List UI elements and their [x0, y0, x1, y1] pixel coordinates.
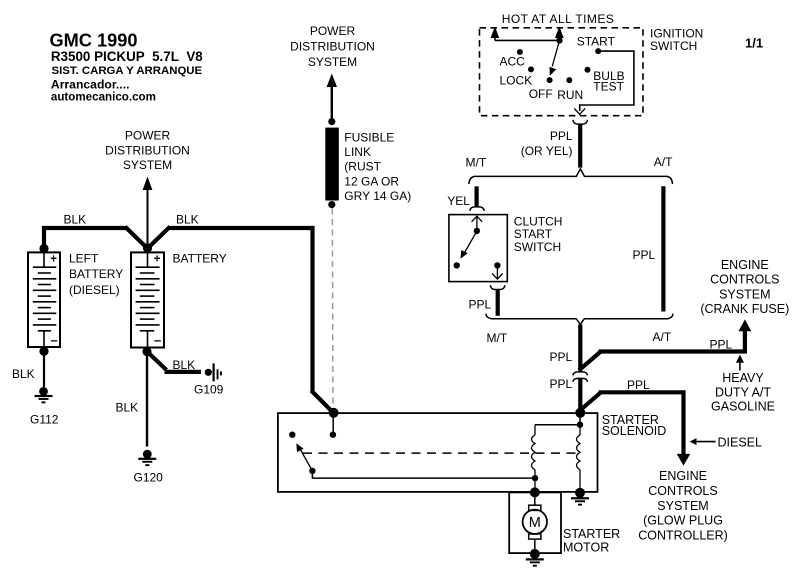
svg-text:+: +: [154, 254, 161, 266]
svg-text:ENGINE: ENGINE: [659, 469, 707, 483]
connector (cup) below clutch switch: [490, 285, 505, 289]
arrow hot feed left: [491, 26, 500, 40]
svg-text:POWER: POWER: [310, 24, 356, 38]
svg-text:R3500 PICKUP 5.7L V8: R3500 PICKUP 5.7L V8: [51, 49, 203, 64]
svg-text:DISTRIBUTION: DISTRIBUTION: [290, 40, 375, 54]
wire branch to glow plug controller (thick): [579, 390, 686, 455]
node ACC contact: [517, 49, 523, 55]
wire YEL to clutch switch (thick): [475, 186, 479, 206]
svg-text:M/T: M/T: [487, 331, 508, 345]
node solenoid arm pivot: [309, 468, 315, 474]
svg-text:SOLENOID: SOLENOID: [602, 424, 667, 438]
svg-text:LINK: LINK: [344, 145, 371, 159]
svg-text:Arrancador....: Arrancador....: [51, 78, 130, 92]
svg-text:GMC 1990: GMC 1990: [50, 31, 138, 51]
svg-text:START: START: [514, 227, 553, 241]
motor brush upper: [529, 505, 541, 510]
coil hold-in winding: [532, 425, 536, 492]
svg-text:(RUST: (RUST: [344, 160, 381, 174]
svg-text:automecanico.com: automecanico.com: [51, 91, 156, 104]
svg-text:POWER: POWER: [125, 129, 171, 143]
arrow hot feed center: [555, 26, 564, 40]
node motor feed: [530, 487, 540, 497]
ignition switch wiper arm: [550, 40, 560, 75]
wire PPL main (connector to solenoid, thick): [578, 379, 582, 413]
node LOCK contact: [528, 66, 534, 72]
node clutch switch common: [474, 228, 480, 234]
svg-text:BLK: BLK: [173, 358, 196, 372]
svg-text:G109: G109: [194, 382, 224, 396]
node RUN contact: [566, 77, 572, 83]
svg-text:TEST: TEST: [593, 80, 624, 94]
svg-text:(OR YEL): (OR YEL): [521, 144, 573, 158]
node motor ground: [530, 549, 540, 559]
fusible link F1: [325, 128, 339, 201]
svg-text:SWITCH: SWITCH: [514, 240, 561, 254]
svg-text:BLK: BLK: [176, 213, 199, 227]
label POWER DISTRIBUTION SYSTEM (left): [105, 129, 190, 173]
svg-text:HEAVY: HEAVY: [722, 371, 764, 385]
svg-text:–: –: [154, 333, 161, 348]
motor M1 (starter motor): [523, 510, 547, 534]
label ENGINE CONTROLS SYSTEM (CRANK FUSE): [700, 258, 789, 316]
svg-text:PPL: PPL: [633, 248, 656, 262]
ground G109 (side facing): [205, 363, 222, 381]
node BULB TEST contact: [585, 67, 591, 73]
wire BLK right battery to G109 (thick): [146, 351, 201, 372]
svg-text:PPL: PPL: [469, 298, 492, 312]
svg-text:SYSTEM: SYSTEM: [657, 499, 708, 513]
ignition switch dashed box: [480, 28, 644, 116]
wire dashed fusible link to solenoid: [331, 209, 334, 411]
svg-text:SIST. CARGA Y ARRANQUE: SIST. CARGA Y ARRANQUE: [52, 65, 203, 77]
arrow clutch output (chevron down): [492, 274, 503, 280]
svg-text:ACC: ACC: [500, 55, 526, 69]
svg-text:YEL: YEL: [447, 194, 470, 208]
title block text: [50, 31, 204, 104]
battery left (LEFT BATTERY DIESEL): [28, 252, 60, 347]
svg-text:(DIESEL): (DIESEL): [69, 283, 120, 297]
svg-text:+: +: [50, 254, 57, 266]
wire right battery to G120: [146, 352, 148, 447]
svg-text:STARTER: STARTER: [563, 527, 620, 541]
label ENGINE CONTROLS SYSTEM (GLOW PLUG CONTROLLER): [638, 469, 728, 543]
ground solenoid: [571, 497, 589, 505]
node OFF contact: [547, 77, 553, 83]
svg-text:M/T: M/T: [466, 155, 487, 169]
connector inline (two domes): [573, 372, 588, 382]
label STARTER MOTOR: [563, 527, 620, 555]
node START contact: [595, 48, 601, 54]
wire PPL main (brace to connector, thick): [578, 324, 582, 371]
svg-text:–: –: [51, 333, 58, 348]
label FUSIBLE LINK: [344, 131, 411, 203]
svg-text:12 GA OR: 12 GA OR: [344, 174, 399, 188]
wire solenoid input stub: [332, 413, 334, 435]
node solenoid ground: [575, 488, 585, 498]
svg-text:LOCK: LOCK: [500, 74, 533, 88]
clutch start switch box: [449, 215, 507, 282]
svg-text:A/T: A/T: [654, 155, 673, 169]
svg-text:PPL: PPL: [550, 350, 573, 364]
label STARTER SOLENOID: [602, 413, 667, 438]
arrow to engine controls (glow plug): [677, 454, 691, 466]
node solenoid feed junction: [575, 408, 585, 418]
battery right (BATTERY): [131, 252, 164, 347]
clutch switch arm: [461, 231, 477, 259]
node solenoid contact fixed: [289, 432, 295, 438]
label LEFT BATTERY (DIESEL): [69, 252, 123, 297]
svg-text:BLK: BLK: [12, 367, 35, 381]
node solenoid contact common: [330, 432, 336, 438]
label PPL (OR YEL): [521, 129, 573, 158]
starter motor box: [509, 492, 561, 553]
solenoid switch arm: [296, 443, 312, 471]
svg-text:CONTROLLER): CONTROLLER): [638, 529, 728, 543]
svg-text:M: M: [529, 515, 541, 531]
node fusible link bottom: [328, 201, 335, 208]
svg-text:G120: G120: [134, 471, 164, 485]
svg-text:DISTRIBUTION: DISTRIBUTION: [105, 144, 190, 158]
svg-text:BLK: BLK: [116, 401, 139, 415]
wire motor ground stub: [534, 539, 536, 554]
wire motor feed stub: [534, 492, 536, 506]
svg-text:A/T: A/T: [653, 330, 672, 344]
label POWER DISTRIBUTION SYSTEM (middle): [290, 24, 375, 69]
label IGNITION SWITCH: [650, 26, 703, 53]
wire solenoid arm to coils: [312, 471, 535, 478]
svg-text:SYSTEM: SYSTEM: [123, 158, 172, 172]
svg-text:BATTERY: BATTERY: [173, 252, 227, 266]
label HEAVY DUTY A/T GASOLINE: [711, 371, 775, 414]
node right battery - terminal: [142, 347, 151, 356]
wire coil top bus: [535, 424, 580, 426]
ground G112: [35, 387, 53, 403]
svg-text:PPL: PPL: [627, 378, 650, 392]
wire branch to crank fuse (thick): [579, 331, 747, 370]
svg-text:GASOLINE: GASOLINE: [711, 400, 775, 414]
wire clutch output stub: [496, 265, 498, 278]
wire START output route: [580, 51, 634, 111]
svg-text:RUN: RUN: [557, 88, 583, 102]
svg-text:SYSTEM: SYSTEM: [308, 55, 357, 69]
node clutch switch contact left: [454, 262, 460, 268]
node coil feed: [577, 422, 583, 428]
svg-text:BLK: BLK: [64, 213, 87, 227]
svg-text:GRY 14 GA): GRY 14 GA): [344, 189, 411, 203]
svg-text:START: START: [577, 35, 616, 49]
node left battery + terminal: [39, 244, 48, 253]
svg-text:BATTERY: BATTERY: [69, 267, 123, 281]
svg-text:(GLOW PLUG: (GLOW PLUG: [643, 514, 723, 528]
svg-text:G112: G112: [30, 413, 59, 427]
svg-text:1/1: 1/1: [745, 35, 763, 50]
svg-text:DIESEL: DIESEL: [718, 436, 763, 450]
starter solenoid box: [278, 413, 598, 492]
arrow START output (chevron down): [574, 109, 585, 115]
ground starter motor: [526, 558, 544, 566]
brace split upper: [469, 169, 673, 184]
connector (cup) below ignition switch: [573, 120, 588, 124]
connector (dome) clutch switch input: [470, 207, 484, 211]
wire PPL from clutch switch (thick): [496, 290, 500, 316]
coil pull-in winding: [577, 425, 581, 493]
arrow HEAVY DUTY pointer: [736, 355, 744, 371]
svg-text:HOT AT ALL TIMES: HOT AT ALL TIMES: [502, 12, 615, 26]
arrow to engine controls (crank fuse): [739, 319, 752, 331]
node clutch switch output: [494, 262, 500, 268]
wire dashed mechanical linkage: [303, 452, 580, 454]
node fusible link top: [328, 118, 335, 125]
wire left battery to G112: [43, 351, 45, 387]
svg-text:PPL: PPL: [710, 338, 733, 352]
svg-text:MOTOR: MOTOR: [563, 540, 609, 554]
wire PPL from ignition (thick): [578, 125, 582, 168]
svg-text:LEFT: LEFT: [69, 252, 99, 266]
node junction batteries: [143, 243, 152, 252]
arrow DIESEL pointer: [690, 438, 716, 445]
svg-text:(CRANK FUSE): (CRANK FUSE): [700, 302, 789, 316]
brace merge lower: [486, 314, 673, 325]
wire hot feed bus: [495, 39, 560, 41]
svg-text:OFF: OFF: [529, 87, 553, 101]
svg-text:FUSIBLE: FUSIBLE: [344, 131, 394, 145]
node ignition feed: [556, 37, 562, 43]
node battery feed at solenoid: [329, 408, 339, 418]
wire BLK battery feed (thick): [44, 227, 334, 414]
node left battery - terminal: [39, 347, 48, 356]
label CLUTCH START SWITCH: [514, 215, 563, 254]
ground G120: [138, 450, 156, 466]
svg-text:SYSTEM: SYSTEM: [719, 287, 770, 301]
svg-text:PPL: PPL: [550, 377, 573, 391]
svg-text:CONTROLS: CONTROLS: [648, 484, 717, 498]
wire clutch input stub: [476, 216, 478, 231]
svg-text:CONTROLS: CONTROLS: [710, 273, 779, 287]
node hold-in winding / switch junction: [532, 475, 538, 481]
arrow clutch input (chevron up): [472, 216, 483, 222]
wire A/T PPL (thick, right): [661, 186, 665, 311]
svg-text:ENGINE: ENGINE: [721, 258, 769, 272]
svg-text:PPL: PPL: [550, 129, 573, 143]
wire solenoid feed stub: [579, 413, 581, 425]
motor brush lower: [529, 534, 541, 539]
svg-text:SWITCH: SWITCH: [650, 39, 697, 53]
arrow to power distribution system (left): [143, 177, 153, 249]
arrow to power distribution system (middle): [327, 74, 337, 121]
svg-text:DUTY A/T: DUTY A/T: [715, 385, 771, 399]
